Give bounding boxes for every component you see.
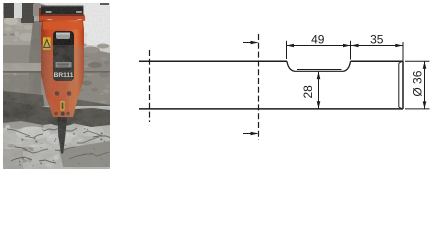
- top rocks dark: [4, 3, 14, 18]
- dark band right: [73, 99, 110, 115]
- bottom rubble: [3, 106, 110, 169]
- right mid rubble: [75, 47, 110, 113]
- chisel: [58, 117, 68, 154]
- background wall base: [3, 3, 110, 169]
- dim 35 right extension: [402, 42, 404, 61]
- top flange: [39, 16, 85, 21]
- bottom pointer wire: [243, 133, 257, 135]
- wall shadow near body: [29, 21, 41, 95]
- dim 28 line: [318, 72, 320, 109]
- dia36 dim line: [424, 61, 426, 109]
- end chamfer line: [399, 62, 402, 109]
- wall mottle: [1, 17, 44, 92]
- taper highlight: [69, 83, 78, 115]
- noise overlay coarse: [3, 45, 110, 169]
- shank end face: [402, 61, 404, 109]
- breaker top bracket: [41, 6, 83, 15]
- red blob left of bracket: [39, 8, 43, 22]
- warning sticker: [43, 37, 51, 50]
- shadow at chisel top: [47, 112, 77, 126]
- top pointer arrowhead: [251, 41, 259, 45]
- dim 35 left arrow: [351, 44, 359, 47]
- bottom pointer arrowhead: [251, 132, 259, 136]
- shank bottom edge: [139, 108, 403, 110]
- dark red strip under bracket: [40, 14, 84, 16]
- darker corners: [3, 149, 23, 169]
- shank top edge left segment: [139, 60, 287, 62]
- upper wall light zone: [3, 15, 39, 45]
- dark band across left: [3, 91, 45, 111]
- lower yellow sticker: [60, 101, 64, 111]
- main body: [41, 20, 84, 117]
- dia36 top arrow: [423, 61, 427, 69]
- snow bright patch: [81, 5, 109, 43]
- shank top edge right segment: [351, 60, 404, 62]
- svg-text:28: 28: [301, 85, 315, 99]
- wall ledge light band: [3, 63, 41, 71]
- rubble patches: [3, 106, 111, 168]
- bolts: [55, 91, 60, 96]
- snow upper right: [39, 3, 110, 57]
- dim 49 right arrow: [343, 44, 351, 47]
- body top shading: [43, 22, 82, 30]
- svg-text:35: 35: [370, 33, 384, 47]
- dia36 bottom arrow: [423, 101, 427, 109]
- svg-text:Ø 36: Ø 36: [410, 70, 424, 96]
- window: [53, 31, 74, 81]
- cylinder label band: [56, 62, 72, 68]
- dia36 extension lines: [405, 61, 430, 109]
- groove bottom line: [295, 70, 344, 72]
- dim 28 bottom arrow: [317, 101, 321, 109]
- photo of hydraulic breaker: [3, 3, 110, 169]
- dark cracks: [7, 129, 30, 136]
- cylinder cap: [56, 33, 70, 40]
- noise overlay fine: [3, 3, 110, 169]
- dim 49 extension lines: [287, 41, 351, 60]
- left stone wall: [3, 11, 43, 99]
- left dashed reference line: [149, 50, 151, 122]
- bright rubble chunks: [78, 126, 104, 137]
- snow rocks row: [82, 47, 100, 54]
- groove inner line: [297, 69, 342, 71]
- dim 49 line: [287, 45, 351, 47]
- lower small bolts: [54, 112, 58, 116]
- broken edge dark band: [3, 101, 110, 127]
- dim 28 top arrow: [317, 72, 321, 80]
- dim 35 right arrow: [395, 44, 403, 47]
- dim 49 left arrow: [287, 44, 295, 47]
- groove right fillet: [344, 61, 351, 71]
- groove left fillet: [287, 61, 295, 71]
- top pointer wire: [243, 42, 257, 44]
- svg-text:49: 49: [311, 33, 325, 47]
- dim 35 line: [351, 45, 403, 47]
- right side mottle: [77, 56, 110, 103]
- technical drawing of chisel shank: [0, 0, 442, 175]
- right dashed reference line: [258, 34, 260, 140]
- dark line right wall: [79, 71, 110, 73]
